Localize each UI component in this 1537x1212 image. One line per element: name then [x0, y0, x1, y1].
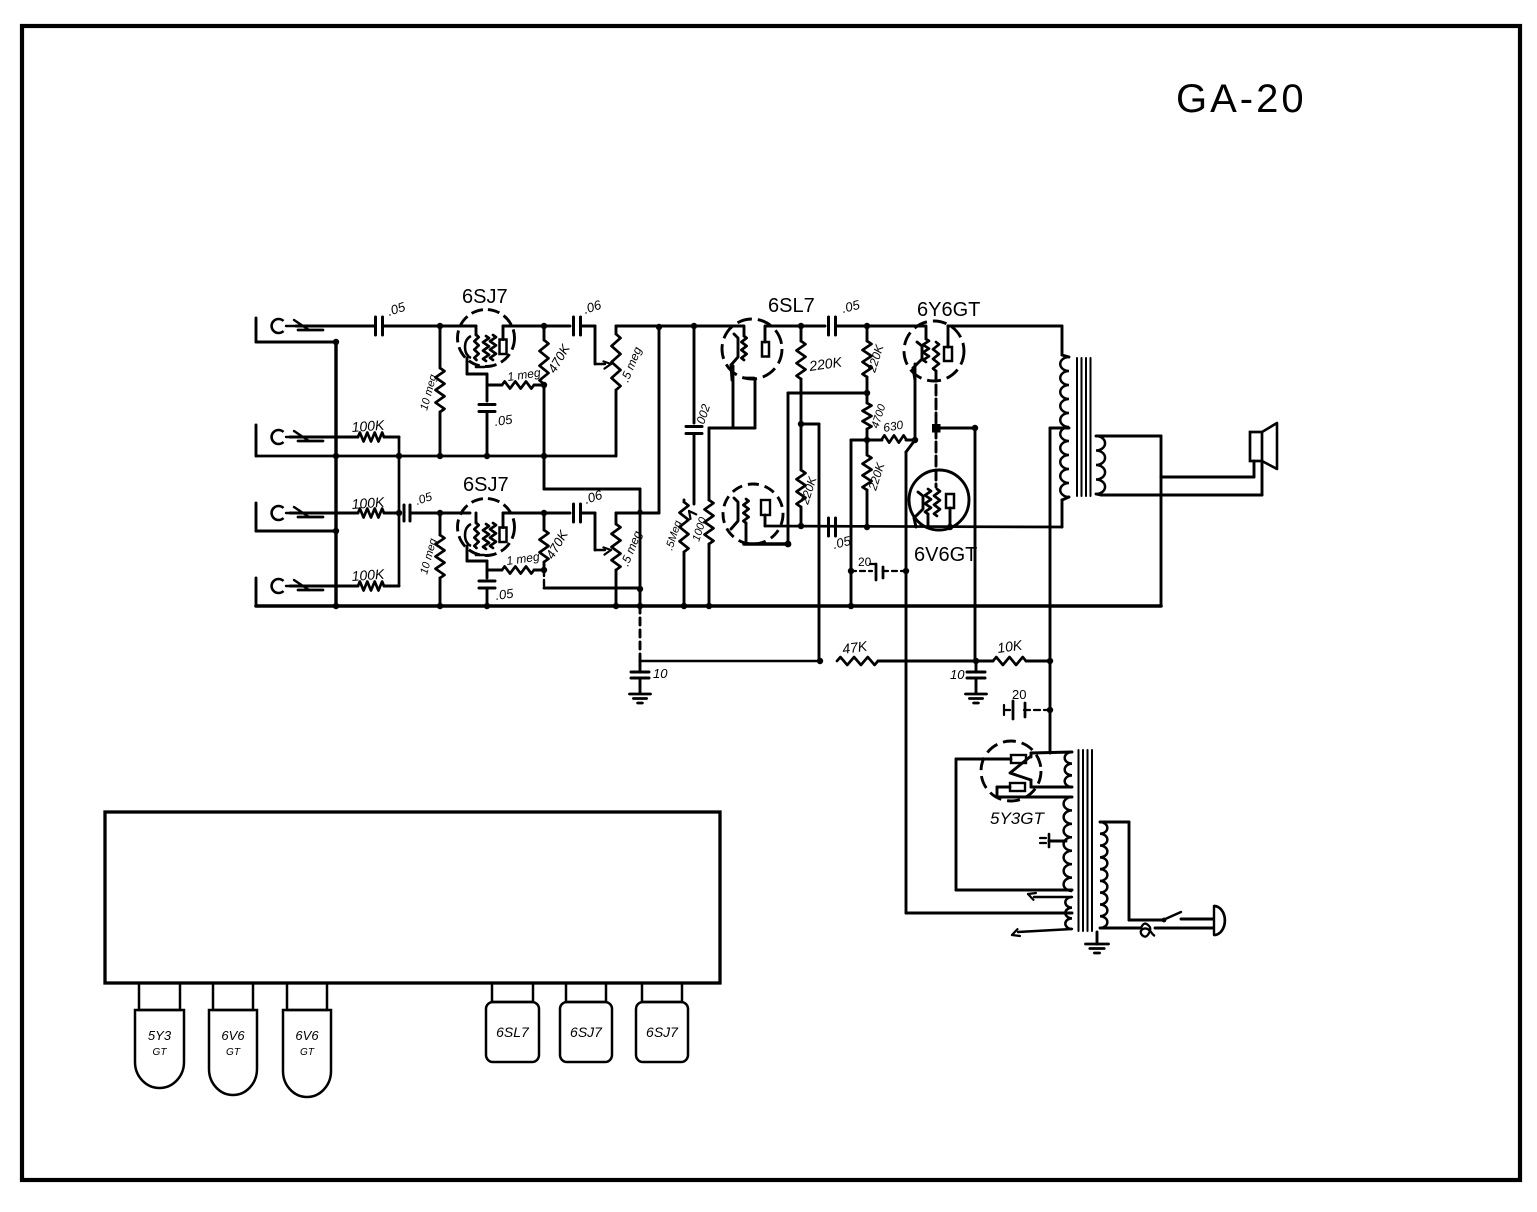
svg-text:100K: 100K: [351, 566, 385, 584]
svg-text:20: 20: [1012, 687, 1026, 702]
svg-text:20: 20: [858, 555, 872, 569]
svg-text:100K: 100K: [351, 494, 385, 512]
svg-text:6SJ7: 6SJ7: [570, 1024, 603, 1040]
svg-text:.05: .05: [493, 411, 514, 428]
svg-text:6V6: 6V6: [221, 1028, 245, 1043]
svg-text:6V6GT: 6V6GT: [914, 544, 977, 566]
svg-text:6SL7: 6SL7: [768, 295, 815, 317]
svg-text:6Y6GT: 6Y6GT: [917, 299, 980, 321]
svg-text:5Y3GT: 5Y3GT: [990, 809, 1045, 828]
svg-text:6V6: 6V6: [295, 1028, 319, 1043]
svg-text:6SJ7: 6SJ7: [646, 1024, 679, 1040]
svg-text:GT: GT: [153, 1047, 168, 1058]
svg-text:10: 10: [950, 667, 965, 682]
svg-text:6SJ7: 6SJ7: [462, 286, 508, 308]
svg-text:6SJ7: 6SJ7: [463, 474, 509, 496]
svg-text:.05: .05: [494, 585, 515, 602]
svg-text:GA-20: GA-20: [1176, 77, 1307, 121]
svg-text:GT: GT: [300, 1047, 315, 1058]
svg-text:GT: GT: [226, 1047, 241, 1058]
svg-text:100K: 100K: [351, 417, 385, 435]
svg-text:6SL7: 6SL7: [496, 1024, 530, 1040]
svg-text:10: 10: [653, 666, 668, 681]
svg-text:5Y3: 5Y3: [148, 1028, 172, 1043]
